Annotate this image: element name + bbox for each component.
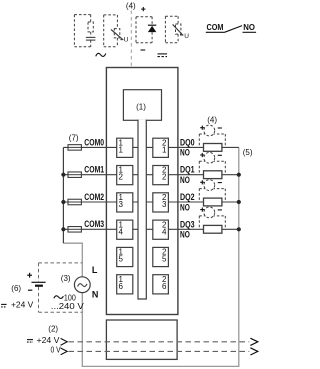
wire row DQ0/COM0 [63, 146, 238, 148]
varistor example box (AC) [104, 15, 120, 47]
junction dot COM3 [61, 227, 65, 231]
suppressor network (4) for DQ2 [199, 189, 225, 202]
fuse F1 (7) on COM1 [68, 172, 81, 178]
svg-text:...240 V: ...240 V [51, 302, 85, 311]
suppressor network (4) for DQ3 [199, 216, 225, 229]
terminal 2/1 [153, 138, 169, 157]
svg-text:NO: NO [180, 148, 190, 159]
wire row DQ2/COM2 [63, 201, 238, 203]
chevron +24V start [61, 338, 68, 354]
svg-text:N: N [92, 290, 99, 300]
varistor RV1 arrow [111, 30, 123, 40]
svg-text:COM0: COM0 [84, 137, 104, 148]
varistor RV2 body [176, 24, 181, 34]
DC symbol under diode box [158, 53, 168, 55]
battery dashed connection box [39, 263, 83, 312]
svg-text:2: 2 [162, 173, 167, 182]
battery G1 plates [32, 281, 46, 283]
junction dot COM1 [61, 173, 65, 177]
terminal 1/4 [117, 220, 133, 239]
svg-text:U: U [184, 33, 189, 40]
battery plus mark [27, 273, 32, 290]
svg-text:2: 2 [119, 173, 124, 182]
diode D1 [148, 24, 156, 26]
arrow +24V end [250, 338, 257, 355]
svg-text:NO: NO [180, 202, 190, 213]
AC rating text [54, 296, 64, 299]
polarity marks for DQ0 suppressor [200, 126, 222, 130]
fuse F2 (7) on COM2 [68, 199, 81, 205]
junction dot COM2 [61, 200, 65, 204]
svg-text:COM2: COM2 [84, 192, 104, 203]
wire row DQ1/COM1 [63, 174, 238, 176]
svg-text:5: 5 [162, 255, 167, 264]
minus mark DC [141, 49, 146, 51]
svg-text:0 V: 0 V [51, 345, 62, 354]
svg-text:(7): (7) [69, 134, 79, 143]
svg-text:1: 1 [162, 145, 167, 154]
DC rating symbol [1, 303, 7, 305]
svg-text:(5): (5) [243, 148, 253, 157]
svg-text:(3): (3) [61, 274, 71, 283]
AC source G2 [74, 277, 90, 293]
terminal 1/3 [117, 193, 133, 212]
svg-text:L: L [92, 265, 98, 275]
polarity marks for DQ3 suppressor [200, 208, 222, 212]
relay block stem [138, 120, 146, 299]
fuse F0 (7) on COM0 [68, 145, 81, 151]
AC symbol under snubber [96, 53, 106, 56]
svg-text:6: 6 [162, 282, 167, 291]
junction dot DQ3 bus [237, 227, 241, 231]
load L3 (5) [204, 225, 222, 233]
load L2 (5) [204, 198, 222, 206]
load L0 (5) [204, 144, 222, 152]
svg-text:U: U [124, 37, 129, 44]
RC snubber example box [74, 15, 93, 47]
svg-text:6: 6 [119, 282, 124, 291]
chevron 0V start [61, 348, 68, 355]
terminal 2/2 [153, 166, 169, 185]
suppressor network (4) for DQ1 [199, 161, 225, 174]
svg-text:5: 5 [119, 255, 124, 264]
module outline [106, 68, 177, 315]
leader line from (4) [130, 11, 132, 68]
terminal 2/4 [153, 220, 169, 239]
svg-text:(2): (2) [48, 325, 58, 334]
polarity marks for DQ1 suppressor [200, 153, 222, 157]
wire left COM bus [62, 147, 64, 243]
svg-text:(6): (6) [11, 284, 21, 293]
svg-text:1: 1 [119, 145, 124, 154]
varistor RV1 body [114, 29, 120, 38]
plus mark DC [141, 7, 146, 50]
svg-text:COM1: COM1 [84, 165, 104, 176]
terminal 2/6 [153, 275, 169, 294]
svg-text:NO: NO [180, 175, 190, 186]
svg-text:NO: NO [180, 230, 190, 241]
svg-text:+24 V: +24 V [37, 336, 61, 345]
polarity marks for DQ2 suppressor [200, 180, 222, 184]
terminal 1/2 [117, 166, 133, 185]
battery minus mark [28, 289, 32, 291]
svg-text:3: 3 [162, 200, 167, 209]
svg-text:(4): (4) [207, 115, 217, 124]
varistor RV2 arrow [173, 24, 183, 35]
svg-text:COM: COM [207, 23, 224, 32]
svg-text:4: 4 [162, 227, 167, 236]
junction dot DQ1 bus [237, 173, 241, 177]
svg-text:+24 V: +24 V [11, 301, 34, 310]
fuse F3 (7) on COM3 [68, 227, 81, 233]
wire +24V dashed [69, 341, 250, 343]
svg-text:COM3: COM3 [84, 219, 104, 230]
capacitor C (snubber) [86, 37, 96, 40]
relay block U1 (1) [123, 90, 161, 121]
varistor example box (DC) [165, 16, 181, 42]
terminal 2/3 [153, 193, 169, 212]
terminal 1/1 [117, 138, 133, 157]
wire L supply loop (gray): corner to AC source, bottom run, right N bus [63, 243, 82, 277]
svg-text:3: 3 [119, 200, 124, 209]
resistor R (snubber) [88, 22, 93, 32]
DC symbol supply [27, 339, 33, 341]
wire 0V dashed [69, 350, 250, 352]
svg-text:(4): (4) [126, 1, 136, 10]
arrow 0V end [250, 348, 257, 355]
terminal 1/6 [117, 275, 133, 294]
legend contact blade [225, 26, 243, 33]
diode suppressor example box (DC) [136, 17, 152, 43]
svg-text:4: 4 [119, 227, 124, 236]
module power-section box [106, 320, 177, 359]
terminal 2/5 [153, 247, 169, 266]
junction dot DQ2 bus [237, 200, 241, 204]
suppressor network (4) for DQ0 [199, 134, 225, 147]
terminal 1/5 [117, 247, 133, 266]
svg-text:(1): (1) [136, 102, 146, 111]
load L1 (5) [204, 171, 222, 179]
wire row DQ3/COM3 [63, 228, 238, 230]
svg-text:NO: NO [243, 23, 255, 32]
